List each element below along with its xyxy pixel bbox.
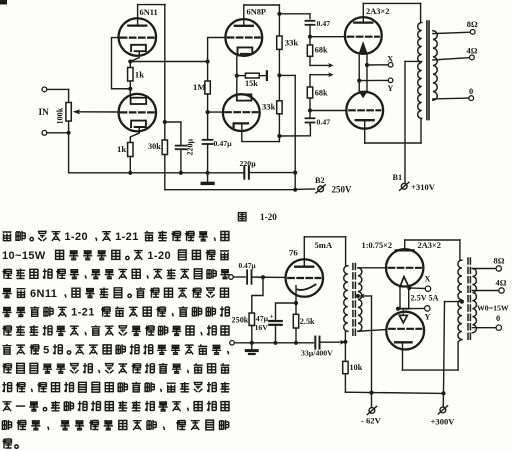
T3 secondary bbox=[472, 269, 476, 333]
terminal 4 ohm bbox=[470, 55, 475, 60]
cathode V2b bbox=[234, 123, 248, 127]
wire: 33k lower bottom node bbox=[278, 114, 280, 142]
T2 secondary bbox=[358, 268, 362, 331]
svg-text:2.5k: 2.5k bbox=[300, 317, 315, 326]
wire: 250k to rail bbox=[251, 326, 253, 343]
resistor 1M bbox=[207, 62, 209, 82]
svg-text:8Ω: 8Ω bbox=[467, 20, 478, 29]
anode V3 bbox=[354, 21, 372, 23]
wire: secondary tap 0 bbox=[433, 97, 469, 100]
wire: V1a anode to top frame bbox=[137, 5, 139, 26]
svg-text:0.47: 0.47 bbox=[317, 19, 331, 28]
capacitor 0.47u input coupling bbox=[246, 270, 248, 284]
svg-text:16V: 16V bbox=[255, 323, 269, 332]
wire: T2 secondary top to V6 grid bbox=[358, 267, 386, 269]
wire: T3 tap 0 bbox=[472, 327, 496, 329]
svg-text:47µ: 47µ bbox=[256, 314, 269, 323]
wire: V6 anode to OPT2 primary top bbox=[404, 240, 406, 250]
triode V2a 6N8P upper bbox=[225, 19, 262, 56]
svg-text:15k: 15k bbox=[245, 79, 258, 88]
wire: 33k to B+ node bbox=[278, 49, 280, 100]
svg-text:1k: 1k bbox=[135, 70, 144, 80]
svg-text:1-20: 1-20 bbox=[64, 231, 88, 243]
cathode V2a bbox=[238, 47, 253, 53]
svg-text:Y: Y bbox=[425, 313, 431, 322]
terminal -62V bbox=[369, 408, 375, 414]
wire: X tap bbox=[365, 63, 369, 67]
terminal B1 +310V bbox=[401, 183, 407, 189]
svg-text:0.47µ: 0.47µ bbox=[214, 139, 233, 148]
interstage transformer T2 primary bbox=[345, 237, 347, 266]
svg-text:1-20: 1-20 bbox=[147, 250, 171, 262]
wire: branch to 250k bbox=[252, 277, 263, 313]
filament V6 triangle outline bbox=[400, 277, 409, 287]
wire: 10k bottom to bias line bbox=[344, 374, 346, 393]
tube V6 2A3 upper fig2 bbox=[386, 249, 423, 286]
capacitor 0.47 upper coupling bbox=[306, 20, 315, 22]
tube V3 2A3 upper output bbox=[345, 17, 382, 54]
wire: B+ node to B2 vertical bbox=[279, 74, 295, 76]
terminal 0 fig2 bbox=[496, 325, 501, 330]
svg-text:0: 0 bbox=[496, 314, 500, 323]
anode V2a bbox=[235, 25, 253, 27]
wire: input top terminal to pot rail bbox=[42, 87, 47, 92]
svg-text:B1: B1 bbox=[393, 173, 403, 182]
svg-text:X: X bbox=[425, 275, 431, 284]
wire: lower anode node to coupling cap bbox=[279, 135, 310, 137]
filament link lines bbox=[358, 54, 360, 92]
cathode V5 arc bbox=[298, 285, 316, 290]
wire: input bottom terminal bbox=[42, 130, 47, 135]
svg-text:30k: 30k bbox=[148, 142, 161, 151]
terminal 8ohm fig2 bbox=[496, 266, 501, 271]
svg-text:4Ω: 4Ω bbox=[496, 279, 507, 288]
terminal Y bbox=[388, 78, 393, 83]
wire: to coupling cap top bbox=[279, 13, 310, 15]
anode plate V1a bbox=[128, 24, 146, 26]
capacitor 47u/16V bypass bbox=[269, 320, 282, 322]
grid V2b dashed bbox=[225, 111, 257, 113]
svg-text:- 62V: - 62V bbox=[361, 416, 382, 426]
scan corner mark bbox=[0, 0, 7, 5]
tube V7 2A3 lower fig2 bbox=[386, 312, 424, 350]
wire: X tap fig2 bbox=[407, 286, 411, 290]
svg-text:68k: 68k bbox=[315, 46, 328, 55]
svg-text:6N8P: 6N8P bbox=[247, 8, 267, 17]
svg-text:1:0.75×2: 1:0.75×2 bbox=[362, 241, 393, 250]
svg-text:1k: 1k bbox=[117, 144, 126, 154]
svg-text:0: 0 bbox=[469, 87, 473, 96]
wire: V3 anode to OPT primary top bbox=[362, 3, 364, 22]
svg-text:4Ω: 4Ω bbox=[467, 47, 478, 56]
wire: cap to upper 2A3 grid node bbox=[309, 25, 311, 37]
wire: V5 anode to interstage primary bbox=[303, 237, 305, 267]
resistor 1k (V1a cathode) bbox=[129, 62, 131, 68]
svg-text:1-21: 1-21 bbox=[71, 307, 95, 319]
wire: junction to V1b anode bbox=[129, 89, 131, 98]
svg-text:1-20: 1-20 bbox=[260, 212, 277, 222]
grid V6 dashed bbox=[389, 267, 421, 269]
resistor 68k upper grid leak bbox=[309, 37, 311, 45]
capacitor 220p in rail to B2 bbox=[243, 172, 246, 174]
capacitor 0.47u to ground bbox=[203, 139, 213, 141]
paragraph of Chinese body text (pseudo-glyphs) bbox=[3, 231, 229, 243]
svg-text:33k: 33k bbox=[285, 38, 299, 48]
wire: V2a cathode down to V2b anode bbox=[237, 54, 239, 95]
wire: V5 cathode down bbox=[295, 286, 297, 315]
wire: input vertical rail bbox=[68, 89, 70, 172]
wire: B2 feed line bbox=[165, 189, 295, 191]
terminal Y fig2 bbox=[425, 306, 430, 311]
wire: V1a cathode down to 1k bbox=[130, 51, 139, 61]
grid V4 dashed bbox=[349, 109, 380, 111]
svg-text:1-21: 1-21 bbox=[115, 231, 139, 243]
svg-text:6N11: 6N11 bbox=[30, 288, 57, 300]
wire: T2 secondary bottom to V7 grid bbox=[358, 330, 385, 332]
wire: V1a grid return left loop bbox=[112, 38, 130, 89]
terminal X bbox=[388, 63, 393, 68]
potentiometer 100k bbox=[66, 103, 71, 122]
resistor 2.5k cathode bbox=[293, 314, 298, 328]
output transformer T1 primary bbox=[418, 23, 422, 119]
wire: V2a anode up to 33k rail bbox=[243, 5, 245, 26]
wire: secondary tap 4ohm bbox=[433, 58, 470, 60]
wire: 2.5k to rail bbox=[295, 328, 297, 343]
svg-text:+: + bbox=[252, 162, 256, 170]
filament V7 triangle outline bbox=[399, 315, 407, 323]
svg-text:100k: 100k bbox=[56, 107, 65, 124]
triode V1a 6N11 upper bbox=[119, 18, 157, 56]
svg-text:68k: 68k bbox=[315, 89, 328, 98]
wire: T1 primary centre tap to B1 bbox=[405, 60, 422, 62]
grid V7 dashed bbox=[389, 328, 421, 330]
tube V4 2A3 lower output bbox=[346, 92, 383, 129]
ground symbol bbox=[207, 173, 209, 183]
svg-text:2A3×2: 2A3×2 bbox=[366, 7, 389, 16]
wire: to B2 terminal bbox=[295, 188, 314, 190]
wire: T3 tap 4ohm bbox=[472, 290, 498, 292]
anode V5 bbox=[295, 266, 313, 268]
triode V2b 6N8P lower bbox=[223, 94, 260, 131]
wire arrow to Y bbox=[310, 74, 329, 76]
wire: cap to 76 grid bbox=[252, 276, 286, 278]
triode V1b 6N11 lower bbox=[119, 94, 157, 132]
svg-text:10k: 10k bbox=[350, 363, 363, 372]
terminal 4ohm fig2 bbox=[499, 288, 504, 293]
svg-text:5mA: 5mA bbox=[315, 240, 333, 250]
svg-text:220µ: 220µ bbox=[186, 139, 195, 156]
filament return rail fig2 bbox=[234, 342, 313, 344]
svg-text:X: X bbox=[387, 55, 393, 64]
wire: rail to transformer bottom with arrow bbox=[320, 341, 341, 343]
svg-text:B2: B2 bbox=[315, 176, 325, 185]
anode V4 bbox=[356, 119, 374, 121]
wire: up to interstage primary bottom bbox=[344, 331, 346, 342]
ground rail of first stages bbox=[69, 172, 244, 174]
wire: branch to 47u bbox=[276, 303, 297, 319]
capacitor 0.47 lower coupling bbox=[306, 117, 315, 119]
terminal input ground fig2 bbox=[230, 341, 235, 346]
filament link lines fig2 bbox=[399, 287, 401, 309]
junction 15k bbox=[235, 74, 239, 78]
resistor 68k lower grid leak bbox=[307, 87, 312, 98]
cathode V1a bbox=[131, 45, 146, 51]
wire: T2 centre tap to -62V bbox=[356, 294, 360, 298]
resistor 15k grid stopper bbox=[237, 75, 246, 77]
B+ rail first stage with 30k bbox=[164, 5, 166, 140]
svg-text:5: 5 bbox=[43, 345, 50, 357]
grid V2a dashed bbox=[228, 36, 260, 38]
wire: 220p to B2 node bbox=[249, 172, 295, 174]
svg-text:76: 76 bbox=[289, 248, 298, 258]
wire: V2b cathode down and right bbox=[242, 124, 280, 142]
terminal X fig2 bbox=[425, 286, 430, 291]
wire: to lower 2A3 grid node bbox=[309, 98, 311, 118]
svg-text:+: + bbox=[270, 313, 274, 321]
anode box V2b bbox=[237, 94, 252, 100]
wire: B2 vertical bbox=[294, 75, 296, 189]
terminal 8 ohm bbox=[470, 30, 475, 35]
wire: secondary tap 8ohm bbox=[433, 32, 470, 33]
wire: node to 1M and V2a grid bbox=[130, 61, 207, 63]
output transformer T3 primary bbox=[458, 260, 462, 339]
wire arrow to X bbox=[309, 56, 311, 65]
svg-text:0.47: 0.47 bbox=[317, 117, 331, 126]
terminal +300V bbox=[442, 393, 444, 407]
wire: branch to 220u cap bbox=[163, 120, 167, 124]
resistor 10k bbox=[344, 342, 346, 362]
T2 core dashed bbox=[352, 264, 354, 336]
svg-text:10~15W: 10~15W bbox=[2, 250, 46, 262]
svg-text:33k: 33k bbox=[262, 102, 276, 112]
svg-text:+310V: +310V bbox=[411, 182, 436, 192]
wire: to V2b grid bbox=[208, 111, 223, 113]
svg-text:8Ω: 8Ω bbox=[494, 257, 505, 266]
grid V1b dashed bbox=[121, 111, 154, 113]
filament V3 triangle bbox=[359, 43, 367, 54]
grid V1a dashed bbox=[121, 36, 154, 38]
wire: 1M bottom to V2b grid node bbox=[207, 94, 209, 139]
svg-text:33µ/400V: 33µ/400V bbox=[301, 349, 333, 358]
tube V5 76 driver bbox=[286, 259, 324, 297]
ground symbol fig2 bbox=[251, 343, 253, 350]
terminal 0 bbox=[469, 96, 474, 101]
wire: V7 anode to OPT2 primary bottom bbox=[402, 342, 404, 370]
wire: T3 centre tap to +300V bbox=[460, 300, 464, 304]
anode V6 bbox=[396, 249, 414, 251]
resistor 33k upper load bbox=[277, 36, 282, 49]
capacitor 220u bypass bbox=[180, 122, 182, 145]
svg-text:2A3×2: 2A3×2 bbox=[418, 241, 441, 250]
cathode V1b bbox=[131, 121, 146, 127]
wire: V4 anode to OPT primary bottom bbox=[364, 120, 366, 143]
resistor 33k lower load bbox=[277, 101, 282, 114]
resistor 30k bbox=[162, 140, 167, 155]
wire: Y tap bbox=[357, 79, 361, 83]
svg-text:250k: 250k bbox=[232, 316, 249, 325]
terminal B2 250V bbox=[318, 186, 324, 192]
wire: 30k bottom through rail down to B2 line bbox=[164, 155, 166, 190]
svg-text:2.5V 5A: 2.5V 5A bbox=[411, 294, 439, 303]
wire: Y tap fig2 bbox=[396, 307, 400, 311]
grid V5 dashed bbox=[288, 277, 320, 279]
wire: V1b cathode to 1k bbox=[130, 127, 139, 143]
wire: pot wiper arrow to grid of V1b bbox=[73, 109, 81, 114]
svg-text:6N11: 6N11 bbox=[140, 8, 158, 17]
svg-text:W0=15W: W0=15W bbox=[477, 304, 509, 313]
resistor 1k (V1b cathode) bbox=[128, 143, 133, 157]
grid V3 dashed bbox=[348, 36, 379, 38]
wire: T3 tap 8ohm bbox=[472, 268, 496, 270]
anode V7 tee bbox=[395, 341, 412, 343]
wire: anode link vertical 33k chain bbox=[278, 5, 280, 36]
svg-text:0.47µ: 0.47µ bbox=[239, 261, 257, 270]
svg-text:1M: 1M bbox=[193, 82, 206, 92]
svg-text:250V: 250V bbox=[332, 185, 353, 195]
anode box V1b bbox=[131, 98, 147, 104]
wire: bias line to +300V node bbox=[345, 392, 443, 393]
svg-text:Y: Y bbox=[387, 84, 393, 93]
capacitor 33u/400V bbox=[314, 337, 316, 349]
svg-text:IN: IN bbox=[39, 107, 50, 117]
caption fig 1-20 bbox=[238, 213, 246, 221]
T1 core bbox=[426, 21, 428, 120]
svg-text:+300V: +300V bbox=[431, 417, 456, 427]
T3 core dashed bbox=[467, 258, 469, 342]
filament V4 triangle bbox=[359, 91, 367, 97]
terminal input fig2 bbox=[229, 275, 234, 280]
resistor 250k grid leak bbox=[249, 313, 254, 326]
T1 secondary bbox=[433, 31, 437, 101]
